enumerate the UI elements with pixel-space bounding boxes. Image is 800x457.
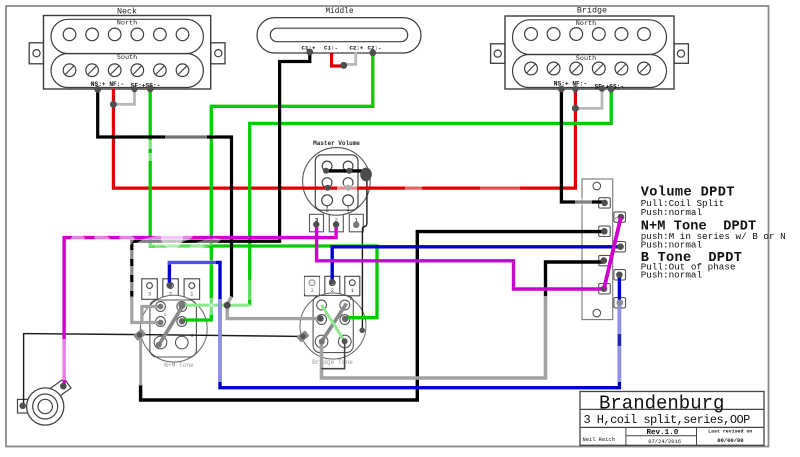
terminal dots middle bbox=[306, 49, 376, 69]
svg-text:1: 1 bbox=[351, 288, 354, 294]
bridge tone dots bbox=[317, 279, 348, 345]
svg-text:NS:+ NF:-: NS:+ NF:- bbox=[554, 81, 587, 88]
svg-text:North: North bbox=[117, 19, 137, 27]
svg-text:3: 3 bbox=[148, 291, 151, 297]
svg-text:Last revised on: Last revised on bbox=[708, 429, 752, 435]
svg-text:3: 3 bbox=[191, 333, 194, 339]
svg-text:1: 1 bbox=[190, 291, 193, 297]
svg-text:C2:+: C2:+ bbox=[349, 45, 363, 52]
blue dash detail on washed segment bbox=[618, 334, 621, 346]
svg-text:2: 2 bbox=[350, 296, 353, 302]
wire: thin link bridge-tone row3-right down to gray run bbox=[322, 342, 345, 369]
wire: middle green C2- to N+M row2-right bbox=[183, 53, 373, 320]
wire: thin black volume casing to bridge-tone casing bbox=[362, 181, 367, 330]
svg-text:Push:normal: Push:normal bbox=[641, 239, 703, 250]
terminal dots bridge bbox=[558, 85, 615, 112]
wire: ground loop switch L2 big black loop to pot casings bbox=[141, 232, 604, 400]
svg-text:4: 4 bbox=[346, 208, 349, 214]
svg-text:Rev.1.0: Rev.1.0 bbox=[646, 429, 678, 437]
wire: middle black C1+ down-left-down to N+M gray jumpers bbox=[132, 52, 310, 298]
bridge pickup bbox=[491, 6, 689, 91]
wire: red bus neck NF- / volume / bridge NF- bbox=[113, 89, 575, 188]
wire: violet washed segments of blue loop bbox=[618, 300, 621, 382]
wire: neck green SS- to bridge tone row2-right bbox=[150, 89, 377, 318]
master volume pot bbox=[303, 140, 371, 232]
junction dot neck-black to gray bbox=[224, 302, 231, 309]
N+M tone dots bbox=[156, 282, 185, 348]
wire: N+M jumper gray row1 branch bbox=[142, 307, 160, 323]
wire: neck black NS+ down and right bbox=[98, 89, 232, 297]
svg-text:South: South bbox=[117, 54, 137, 62]
magenta diagonal on switch bbox=[604, 217, 621, 289]
svg-text:Bridge: Bridge bbox=[577, 6, 607, 16]
svg-text:North: North bbox=[576, 20, 596, 28]
svg-text:Bridge Tone: Bridge Tone bbox=[312, 359, 353, 366]
N+M casing lug bbox=[133, 329, 146, 341]
jack terminal dots bbox=[19, 383, 66, 409]
wire: blue switch R2 to bridge tone lug2 bbox=[332, 247, 620, 282]
middle pickup bbox=[257, 8, 421, 53]
neck pickup bbox=[29, 7, 225, 90]
wire: middle red C1- series link bbox=[332, 53, 344, 67]
wire: gray washed casing drop N+M bbox=[139, 337, 142, 386]
bridge tone gray diagonal bbox=[320, 304, 347, 345]
wire: magenta volume lug3 to switch L4 bbox=[317, 224, 604, 289]
wire: neck gray series-link jumper bbox=[115, 89, 135, 104]
svg-text:Push:normal: Push:normal bbox=[641, 207, 703, 218]
svg-text:C1:-: C1:- bbox=[324, 45, 338, 52]
switch function labels bbox=[641, 186, 786, 281]
svg-text:South: South bbox=[576, 55, 596, 63]
wire: magenta volume lug2 to output jack hot bbox=[64, 224, 336, 385]
wire: gray washed continuation into N+M row2-left bbox=[132, 297, 160, 323]
wire: gray bridge-tone row3-left to switch L3 lower run bbox=[322, 296, 546, 378]
title block bbox=[580, 392, 764, 446]
output jack bbox=[18, 378, 71, 425]
N+M tone gray diagonal bbox=[159, 304, 185, 346]
terminal dots neck bbox=[94, 85, 153, 108]
bridge tone casing lugs bbox=[297, 328, 365, 343]
svg-text:N+M Tone: N+M Tone bbox=[164, 362, 194, 369]
svg-text:2: 2 bbox=[325, 208, 328, 214]
volume DPDT jumper bar bbox=[326, 169, 363, 172]
wire: bridge gray series-link jumper bbox=[577, 89, 602, 108]
svg-text:Brandenburg: Brandenburg bbox=[599, 393, 724, 415]
wire: black upper part of L3 run bbox=[546, 262, 604, 297]
svg-text:07/24/2016: 07/24/2016 bbox=[648, 438, 681, 445]
wire: middle gray C2+ series link bbox=[344, 53, 356, 65]
N+M tone pot bbox=[140, 279, 207, 369]
svg-text:Neil Reich: Neil Reich bbox=[583, 437, 615, 443]
switch lug dots bbox=[601, 200, 625, 306]
svg-text:1: 1 bbox=[164, 312, 167, 318]
wire: gray continuation of neck black to bridge-tone row2-left bbox=[227, 297, 320, 319]
wire: thin black ground bus to jack sleeve bbox=[24, 334, 303, 406]
svg-text:Push:normal: Push:normal bbox=[641, 270, 703, 281]
volume pot dots bbox=[313, 168, 359, 228]
svg-text:Master Volume: Master Volume bbox=[313, 140, 360, 147]
wire: bridge green SS- down-left bbox=[250, 89, 612, 305]
svg-text:3 H,coil split,series,OOP: 3 H,coil split,series,OOP bbox=[584, 413, 751, 427]
svg-text:Middle: Middle bbox=[325, 8, 353, 16]
svg-text:00/00/00: 00/00/00 bbox=[717, 437, 743, 444]
wire: blue switch R3/R4 loop to N+M tone lug2 bbox=[169, 262, 619, 387]
volume blob terminal bbox=[360, 168, 372, 182]
wire: bridge black NS+ to switch L1 bbox=[561, 89, 603, 202]
wire: light green link to N+M row1-right bbox=[182, 304, 250, 307]
bridge tone light green diagonal bbox=[322, 305, 345, 342]
watermark washes (decorative) bbox=[62, 133, 592, 381]
DPDT switch panel bbox=[582, 179, 626, 320]
bridge tone pot bbox=[300, 276, 366, 366]
